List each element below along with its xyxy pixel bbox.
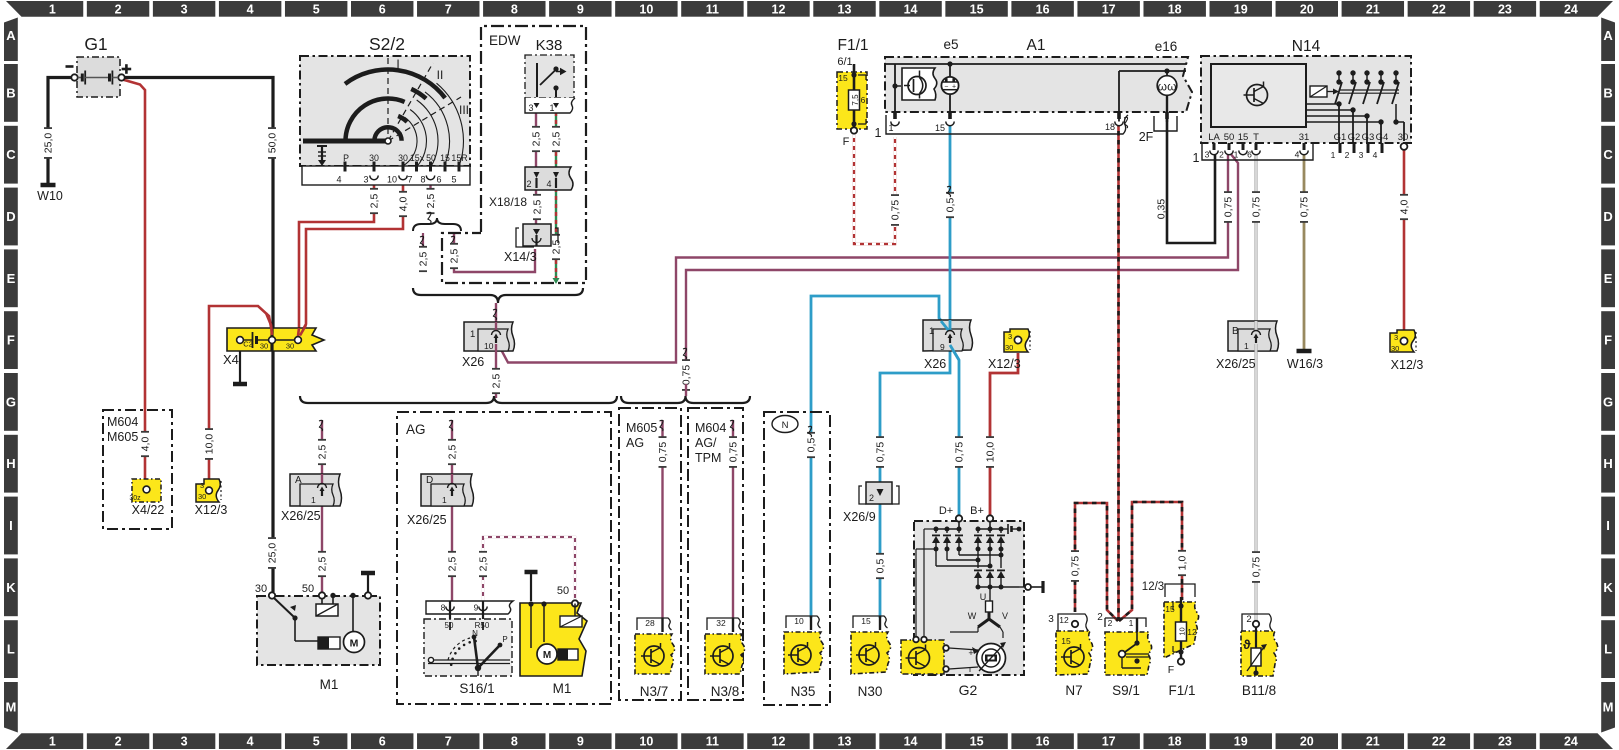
- svg-text:14: 14: [904, 2, 918, 16]
- svg-text:31: 31: [1299, 132, 1310, 143]
- svg-text:25,0: 25,0: [267, 543, 279, 564]
- svg-text:1: 1: [1331, 150, 1336, 160]
- svg-text:19: 19: [1234, 735, 1248, 749]
- svg-text:1: 1: [875, 126, 882, 140]
- svg-text:50: 50: [557, 585, 569, 597]
- svg-text:24: 24: [1564, 2, 1578, 16]
- svg-text:18: 18: [1105, 122, 1115, 132]
- svg-text:4,0: 4,0: [140, 437, 152, 452]
- svg-text:7: 7: [445, 2, 452, 16]
- svg-text:K38: K38: [536, 37, 563, 54]
- svg-text:0,75: 0,75: [1223, 197, 1235, 218]
- svg-text:B: B: [1603, 85, 1612, 100]
- connector X12/3 middle: [988, 329, 1030, 371]
- svg-text:K: K: [1603, 580, 1613, 595]
- svg-text:K: K: [6, 580, 16, 595]
- svg-text:23: 23: [1498, 2, 1512, 16]
- svg-text:2,5: 2,5: [317, 445, 329, 460]
- svg-text:15: 15: [1061, 636, 1071, 646]
- wire: X26 to AG splice, 2.5 purple, with branch to N14 term 50: [495, 350, 497, 398]
- svg-text:G4: G4: [1376, 132, 1389, 143]
- svg-text:G1: G1: [1334, 132, 1347, 143]
- svg-text:7: 7: [445, 735, 452, 749]
- svg-text:15: 15: [970, 2, 984, 16]
- svg-text:5: 5: [313, 2, 320, 16]
- svg-text:N14: N14: [1292, 38, 1321, 55]
- N3/7 connector pin 28: [637, 618, 672, 632]
- svg-text:M: M: [350, 638, 359, 650]
- svg-text:6: 6: [1247, 150, 1252, 160]
- svg-text:6: 6: [861, 95, 866, 105]
- svg-text:30: 30: [255, 583, 267, 595]
- wire: X12/3 to alternator B+, 10.0 red: [990, 353, 1018, 515]
- svg-text:0,75: 0,75: [875, 442, 887, 463]
- svg-text:0,5: 0,5: [945, 198, 957, 213]
- svg-text:M1: M1: [320, 677, 339, 692]
- svg-text:16: 16: [1036, 2, 1050, 16]
- wire stub: splice branch right to X14/3, 2.5 purple: [454, 233, 535, 272]
- svg-text:A: A: [6, 28, 16, 43]
- svg-text:0,35: 0,35: [1156, 199, 1168, 220]
- svg-text:28: 28: [645, 618, 655, 628]
- AG transmission dashed box: [397, 412, 611, 704]
- wire: K38 pin1 to X18/18 pin4, green/red: [555, 112, 557, 168]
- wire: S16/1 pin9 to M1 terminal 50, purple/white dashed: [483, 537, 575, 601]
- svg-text:M: M: [543, 650, 551, 661]
- svg-text:N: N: [782, 420, 789, 431]
- svg-text:0,75: 0,75: [1299, 197, 1311, 218]
- brace: AG splice over M1/S16: [300, 396, 617, 403]
- svg-text:F1/1: F1/1: [837, 37, 868, 54]
- svg-text:1: 1: [49, 2, 56, 16]
- svg-text:EDW: EDW: [489, 33, 521, 48]
- connector X18/18: [489, 167, 573, 209]
- svg-text:0,75: 0,75: [657, 442, 669, 463]
- ground W16/3: [1297, 349, 1312, 354]
- connector X12/3 left: [195, 479, 228, 517]
- overvoltage relay N14: [1193, 38, 1409, 165]
- svg-text:I: I: [9, 518, 13, 533]
- wire: A1 pin15 to X26 pin9, 0.5 blue: [949, 122, 952, 332]
- svg-text:2: 2: [1219, 150, 1224, 160]
- connector X12/3 right: [1390, 330, 1423, 372]
- svg-text:I: I: [1606, 518, 1610, 533]
- control module N3/7 component: [635, 634, 675, 699]
- svg-text:LA: LA: [1208, 132, 1220, 143]
- svg-text:9: 9: [474, 603, 479, 613]
- svg-text:14: 14: [904, 735, 918, 749]
- svg-text:0,75: 0,75: [1251, 557, 1263, 578]
- temperature sensor B11/8 connector: [1242, 614, 1273, 631]
- svg-text:10,0: 10,0: [985, 442, 997, 463]
- svg-text:23: 23: [1498, 735, 1512, 749]
- svg-text:E: E: [7, 271, 16, 286]
- brace: EDW harness splice: [413, 288, 583, 303]
- svg-text:12: 12: [772, 2, 786, 16]
- relay K38 box: [525, 55, 574, 98]
- svg-text:C: C: [6, 147, 16, 162]
- battery G1: [66, 34, 132, 85]
- svg-text:21: 21: [1366, 2, 1380, 16]
- wire: N7 / S9/1 splice loop, 0.75 red/black: [1075, 503, 1118, 621]
- svg-text:G2: G2: [1348, 132, 1361, 143]
- svg-text:1,0: 1,0: [1177, 556, 1189, 571]
- svg-text:12: 12: [772, 735, 786, 749]
- svg-text:4: 4: [247, 735, 254, 749]
- svg-text:0,75: 0,75: [1070, 556, 1082, 577]
- svg-text:9: 9: [940, 342, 945, 352]
- svg-text:B+: B+: [970, 505, 984, 517]
- svg-text:3: 3: [1205, 150, 1210, 160]
- svg-text:W16/3: W16/3: [1287, 357, 1323, 371]
- svg-text:2: 2: [526, 179, 531, 189]
- svg-text:50: 50: [1224, 132, 1235, 143]
- svg-text:M605: M605: [626, 421, 657, 435]
- ignition starter switch S9/1 connector: [1097, 612, 1146, 632]
- relay K38: [525, 37, 575, 113]
- svg-text:2: 2: [1108, 618, 1113, 628]
- svg-text:30: 30: [286, 342, 294, 351]
- svg-text:15: 15: [970, 735, 984, 749]
- svg-text:3: 3: [528, 103, 533, 113]
- ignition starter switch S9/1: [1105, 632, 1152, 698]
- svg-text:7,5: 7,5: [851, 94, 860, 106]
- svg-text:50: 50: [302, 583, 314, 595]
- svg-text:13: 13: [838, 2, 852, 16]
- svg-text:X26/9: X26/9: [843, 510, 876, 524]
- wire: K38 pin3 to X18/18 pin2 to X14/3, purple: [535, 112, 537, 168]
- svg-text:10: 10: [1178, 627, 1187, 635]
- svg-text:+: +: [968, 648, 973, 658]
- connector X26/25 D: [407, 474, 474, 527]
- svg-text:III: III: [459, 103, 469, 117]
- svg-text:9: 9: [577, 735, 584, 749]
- svg-text:30: 30: [260, 342, 268, 351]
- svg-text:F: F: [7, 333, 15, 348]
- svg-text:2,5: 2,5: [425, 194, 437, 209]
- connector X26 right: [923, 320, 973, 371]
- svg-text:3: 3: [200, 481, 204, 490]
- svg-text:1: 1: [311, 495, 316, 505]
- svg-text:ı: ı: [969, 664, 972, 674]
- fuse F1/1 bottom: [1142, 581, 1199, 698]
- svg-text:24: 24: [1564, 735, 1578, 749]
- svg-text:X12/3: X12/3: [195, 503, 228, 517]
- svg-text:M604: M604: [107, 415, 138, 429]
- starter motor M1 internals: [255, 573, 375, 692]
- svg-text:4: 4: [1373, 150, 1378, 160]
- svg-text:B: B: [1232, 326, 1239, 337]
- svg-text:1: 1: [549, 103, 554, 113]
- svg-text:20: 20: [1300, 735, 1314, 749]
- svg-text:N35: N35: [791, 684, 816, 699]
- svg-text:2,5: 2,5: [491, 374, 503, 389]
- svg-text:2F: 2F: [1139, 130, 1154, 144]
- svg-text:II: II: [437, 68, 444, 82]
- svg-text:D: D: [426, 475, 433, 486]
- fuel pump M1 yellow: [520, 572, 587, 696]
- svg-text:2: 2: [1345, 150, 1350, 160]
- svg-text:M1: M1: [553, 681, 572, 696]
- svg-text:1: 1: [49, 735, 56, 749]
- connector X14/3: [504, 224, 558, 264]
- svg-text:1: 1: [1129, 618, 1134, 628]
- svg-text:X4: X4: [223, 352, 239, 367]
- svg-text:AG: AG: [406, 422, 426, 437]
- svg-text:3: 3: [181, 2, 188, 16]
- svg-text:30: 30: [1398, 132, 1409, 143]
- svg-text:2,5: 2,5: [447, 445, 459, 460]
- EDW system boundary dashed box: [442, 26, 586, 283]
- svg-text:10,0: 10,0: [204, 434, 216, 455]
- temperature sensor B11/8: [1241, 627, 1278, 698]
- svg-text:20: 20: [1300, 2, 1314, 16]
- svg-text:15: 15: [935, 123, 945, 133]
- svg-text:1: 1: [442, 495, 447, 505]
- wire: N14 terminal 50 second branch to N3 splice, 0.75 purple: [686, 153, 1238, 360]
- connector X4/22: [129, 479, 164, 517]
- svg-text:4: 4: [336, 175, 341, 185]
- wire: G1 plus to X4/22, 4.0 red: [123, 80, 146, 488]
- svg-text:1: 1: [1193, 151, 1200, 165]
- starter motor M1 box: [257, 596, 380, 665]
- wire: e16 lamp to N14 terminal LA, 0.35 black: [1167, 118, 1215, 243]
- N35 connector pin 10: [786, 616, 821, 630]
- svg-text:2,5: 2,5: [532, 200, 544, 215]
- svg-text:0,5: 0,5: [875, 559, 887, 574]
- control module N3/7 dashed box: [619, 408, 681, 700]
- svg-text:2,5: 2,5: [531, 132, 543, 147]
- wire: G1 plus to X4 terminal 30, 50.0 black: [122, 78, 274, 335]
- svg-text:H: H: [1603, 456, 1612, 471]
- svg-text:7: 7: [407, 175, 412, 185]
- svg-text:2: 2: [1246, 614, 1251, 625]
- svg-text:3: 3: [1394, 333, 1398, 342]
- svg-text:11: 11: [706, 2, 719, 16]
- connector X26 left: [462, 322, 515, 369]
- svg-text:30: 30: [1005, 343, 1013, 352]
- wire: N14 terminal T to X26/25-B to B11/8, 0.75 grey: [1254, 152, 1257, 621]
- svg-text:18: 18: [1168, 2, 1182, 16]
- brace: splice under S2/2 pin8: [413, 218, 461, 231]
- svg-text:8: 8: [511, 735, 518, 749]
- svg-text:11: 11: [706, 735, 719, 749]
- svg-text:6/1: 6/1: [837, 56, 852, 68]
- fuel gauge sender S16/1 box: [424, 619, 512, 676]
- svg-text:X26/25: X26/25: [1216, 357, 1256, 371]
- alternator G2 internals: [901, 505, 1043, 698]
- svg-text:30: 30: [198, 492, 206, 501]
- ground W10: [41, 183, 56, 188]
- svg-text:12: 12: [1059, 615, 1069, 625]
- svg-text:G2: G2: [959, 682, 978, 698]
- svg-text:30: 30: [1391, 344, 1399, 353]
- svg-text:e5: e5: [943, 37, 958, 52]
- svg-text:V: V: [1002, 611, 1008, 621]
- svg-text:12/3: 12/3: [1142, 581, 1164, 593]
- svg-text:N3/7: N3/7: [640, 684, 669, 699]
- wire: fuse F1/1 to A1 pin1, 0.75 red/white dashed: [854, 134, 895, 244]
- svg-text:B11/8: B11/8: [1242, 683, 1276, 698]
- wire: splice to N3/7 pin28, 0.75 purple: [661, 420, 663, 618]
- voltage regulator unit N7 connector: [1048, 614, 1088, 631]
- connector X26/9: [843, 482, 899, 524]
- svg-text:18: 18: [1168, 735, 1182, 749]
- svg-text:3: 3: [1359, 150, 1364, 160]
- overvoltage protection relay N14 box: [1201, 56, 1411, 143]
- control module N3/8 component: [705, 634, 745, 699]
- battery G1 box: [77, 57, 120, 97]
- svg-text:4: 4: [1295, 150, 1300, 160]
- wire: X4 to X12/3, 10.0 red: [209, 306, 272, 488]
- svg-text:3: 3: [1048, 614, 1054, 625]
- bus bar X4: [223, 313, 324, 384]
- svg-text:0,75: 0,75: [681, 365, 693, 386]
- svg-text:4: 4: [546, 179, 551, 189]
- svg-text:13: 13: [838, 735, 852, 749]
- svg-text:5: 5: [313, 735, 320, 749]
- control unit A1 box: [885, 57, 1192, 112]
- svg-text:N3/8: N3/8: [711, 684, 740, 699]
- voltage regulator unit N7: [1056, 631, 1093, 698]
- svg-text:L: L: [7, 642, 15, 657]
- svg-text:S2/2: S2/2: [369, 34, 405, 54]
- svg-text:W: W: [968, 611, 977, 621]
- svg-text:3: 3: [363, 175, 368, 185]
- svg-text:X12/3: X12/3: [1391, 358, 1424, 372]
- brace: N3/7-N3/8 splice: [621, 396, 750, 403]
- control module N35 dashed box: [764, 412, 830, 705]
- svg-text:2: 2: [115, 735, 122, 749]
- svg-text:F: F: [1604, 333, 1612, 348]
- svg-text:ω: ω: [1167, 80, 1176, 94]
- svg-text:e16: e16: [1155, 39, 1178, 54]
- svg-text:F: F: [843, 136, 850, 148]
- svg-text:16: 16: [1036, 735, 1050, 749]
- svg-text:50,0: 50,0: [267, 133, 279, 154]
- svg-text:10: 10: [639, 2, 653, 16]
- wire: X26 pin9 branch to X26/9 and N30, blue: [880, 350, 950, 484]
- svg-text:H: H: [6, 456, 15, 471]
- wire: splice to N3/8 pin32, 0.75 purple: [732, 420, 734, 618]
- svg-text:0,75: 0,75: [954, 442, 966, 463]
- svg-text:2,5: 2,5: [447, 557, 459, 572]
- svg-text:M: M: [1603, 700, 1614, 715]
- svg-text:G: G: [6, 394, 16, 409]
- wire: S2/2 terminal 30 (pin3) to X4, 2.5 red: [298, 174, 374, 337]
- wire: G1 minus to ground W10, 25.0 black: [48, 78, 75, 184]
- svg-text:9: 9: [577, 2, 584, 16]
- svg-text:E: E: [1604, 271, 1613, 286]
- relay module N30 connector pin 15: [853, 616, 888, 630]
- svg-text:2,5: 2,5: [369, 194, 381, 209]
- svg-text:1: 1: [1234, 150, 1239, 160]
- svg-text:4: 4: [247, 2, 254, 16]
- svg-text:2,5: 2,5: [449, 249, 461, 264]
- wire: X18/18 pin4 down to EDW edge, green/red: [555, 188, 557, 278]
- fuse F1/1 top: [837, 37, 869, 148]
- connector X26/25 B: [1216, 321, 1279, 371]
- svg-text:X14/3: X14/3: [504, 250, 537, 264]
- svg-text:6: 6: [379, 735, 386, 749]
- instrument cluster A1: [875, 37, 1186, 144]
- svg-text:B: B: [6, 85, 15, 100]
- N3/8 connector pin 32: [707, 618, 742, 632]
- alternator G2 box: [914, 521, 1024, 675]
- wire: splice to X26/25-D to S16/1 pin8, 2.5 purple: [451, 420, 453, 476]
- svg-text:4,0: 4,0: [1399, 200, 1411, 215]
- control module N35 component: [784, 632, 824, 699]
- wire: S9/1 / F1/1 splice loop, 1.0 red/black: [1119, 502, 1182, 621]
- svg-text:1: 1: [888, 123, 893, 133]
- svg-text:12: 12: [1187, 627, 1197, 637]
- svg-text:15: 15: [1238, 132, 1249, 143]
- svg-text:1: 1: [470, 329, 475, 340]
- svg-text:G1: G1: [84, 34, 107, 54]
- svg-text:M: M: [5, 700, 16, 715]
- svg-text:10: 10: [794, 616, 804, 626]
- svg-text:2,5: 2,5: [551, 240, 563, 255]
- svg-text:T: T: [1253, 132, 1259, 143]
- svg-text:8: 8: [420, 175, 425, 185]
- svg-text:22: 22: [1432, 735, 1446, 749]
- svg-text:2,5: 2,5: [478, 557, 490, 572]
- svg-text:32: 32: [716, 618, 726, 628]
- svg-text:1: 1: [929, 326, 934, 337]
- ignition switch S2/2: [302, 34, 470, 185]
- svg-text:I: I: [396, 57, 399, 71]
- relay module N30 component: [851, 632, 891, 699]
- svg-text:15: 15: [838, 73, 848, 83]
- svg-text:0,75: 0,75: [728, 442, 740, 463]
- svg-text:D+: D+: [939, 505, 953, 517]
- svg-text:X26/25: X26/25: [281, 509, 321, 523]
- svg-text:2,5: 2,5: [551, 132, 563, 147]
- svg-text:X26: X26: [462, 355, 484, 369]
- connector X26/25 A: [281, 474, 342, 523]
- wire: X4 to starter M1 terminal 30, 25.0 black: [271, 345, 274, 592]
- svg-text:1: 1: [1244, 341, 1249, 351]
- svg-text:S16/1: S16/1: [459, 681, 494, 696]
- svg-text:C2: C2: [243, 340, 253, 349]
- svg-text:N7: N7: [1065, 683, 1082, 698]
- svg-text:30z: 30z: [129, 495, 141, 502]
- svg-text:G: G: [1603, 394, 1613, 409]
- svg-text:6: 6: [379, 2, 386, 16]
- svg-text:0,75: 0,75: [890, 200, 902, 221]
- control module N3/8 dashed box: [688, 408, 743, 700]
- svg-text:17: 17: [1102, 735, 1116, 749]
- svg-text:2,5: 2,5: [317, 557, 329, 572]
- svg-text:4,0: 4,0: [398, 197, 410, 212]
- svg-text:C: C: [1603, 147, 1613, 162]
- wire: S2/2 terminal 30 (pin10) to X4, 4.0 red: [300, 174, 403, 335]
- svg-text:S9/1: S9/1: [1112, 683, 1140, 698]
- fuel sender S16/1 internals: [426, 601, 513, 696]
- svg-text:W10: W10: [37, 189, 63, 203]
- svg-text:AG: AG: [626, 436, 644, 450]
- svg-text:8: 8: [511, 2, 518, 16]
- wire: splice to X26 pin10, purple: [495, 303, 497, 330]
- wire: X26/9 to N30 pin15, 0.5 blue: [879, 502, 882, 618]
- svg-text:F1/1: F1/1: [1168, 683, 1195, 698]
- wire stub: splice branch left, 2.5: [422, 233, 424, 247]
- svg-text:X26/25: X26/25: [407, 513, 447, 527]
- svg-text:N30: N30: [858, 684, 883, 699]
- svg-text:3: 3: [181, 735, 188, 749]
- svg-text:10: 10: [639, 735, 653, 749]
- wire: N14 terminal 30 to X12/3, 4.0 red: [1403, 150, 1406, 336]
